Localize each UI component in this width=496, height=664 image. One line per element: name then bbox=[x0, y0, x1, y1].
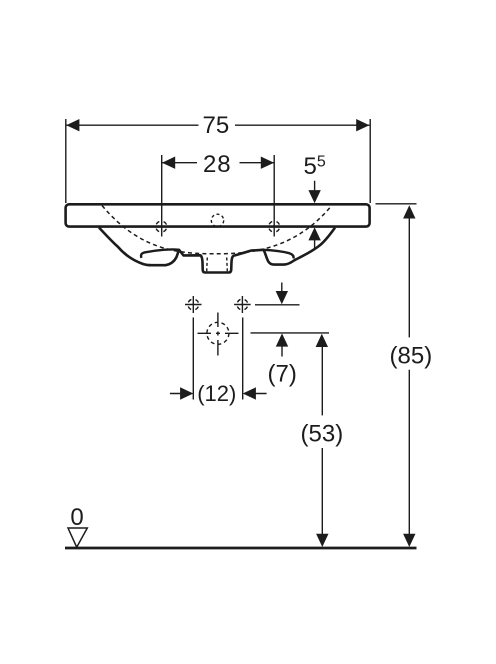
arrowhead 12 right-pointing-left bbox=[243, 387, 256, 399]
dim 7 lower line bbox=[251, 332, 330, 334]
dim 28 extension lines bbox=[162, 155, 275, 237]
drain circle bbox=[198, 313, 239, 356]
datum triangle bbox=[68, 528, 87, 547]
arrowhead 85 up bbox=[403, 205, 415, 218]
arrowhead 12 left-pointing-right bbox=[180, 387, 193, 399]
svg-text:(12): (12) bbox=[197, 381, 236, 406]
washbasin rim bbox=[66, 204, 370, 226]
arrowhead 5.5 down bbox=[308, 190, 320, 203]
arrowhead 75 left bbox=[66, 119, 79, 131]
svg-text:75: 75 bbox=[203, 112, 230, 139]
dim 75 extension lines bbox=[66, 119, 370, 203]
faucet hole left bbox=[156, 221, 167, 232]
svg-text:28: 28 bbox=[203, 151, 232, 178]
arrowhead 28 right bbox=[261, 157, 274, 169]
svg-text:(53): (53) bbox=[301, 421, 344, 448]
arrowhead 85 down bbox=[403, 534, 415, 547]
dim 85 line bbox=[408, 218, 410, 535]
fixing hole right bbox=[234, 296, 251, 313]
arrowhead 53 up bbox=[316, 334, 328, 347]
svg-text:(7): (7) bbox=[268, 360, 297, 387]
floor line bbox=[65, 547, 417, 550]
bowl outline left bbox=[99, 228, 335, 273]
basin inner dashed arc bbox=[102, 206, 330, 254]
svg-text:0: 0 bbox=[70, 504, 83, 531]
dim 12 tails bbox=[170, 393, 267, 395]
dim 5.5 arrow stems bbox=[314, 181, 316, 250]
arrowhead 75 right bbox=[356, 119, 369, 131]
faucet hole right bbox=[269, 221, 280, 232]
drain hidden dashed lines bbox=[207, 258, 228, 272]
dim 75 line bbox=[66, 124, 369, 126]
dim 28 line bbox=[162, 162, 274, 164]
svg-text:(85): (85) bbox=[390, 343, 433, 370]
dim 12 extension lines bbox=[193, 318, 242, 400]
bowl right lip bbox=[264, 250, 294, 259]
bowl left lip bbox=[141, 249, 179, 257]
dim 7 upper line bbox=[255, 304, 300, 306]
fixing hole left bbox=[185, 296, 202, 313]
arrowhead 7 down bbox=[276, 291, 288, 304]
arrowhead 7 up bbox=[276, 333, 288, 346]
arrowhead 28 left bbox=[162, 157, 175, 169]
arrowhead 53 down bbox=[316, 534, 328, 547]
dim 85 extension line bbox=[376, 203, 417, 205]
dim 53 line bbox=[321, 347, 323, 535]
dim 7 arrow stems bbox=[281, 283, 283, 357]
overflow dashed circle bbox=[211, 214, 223, 226]
arrowhead 5.5 up bbox=[308, 227, 320, 240]
